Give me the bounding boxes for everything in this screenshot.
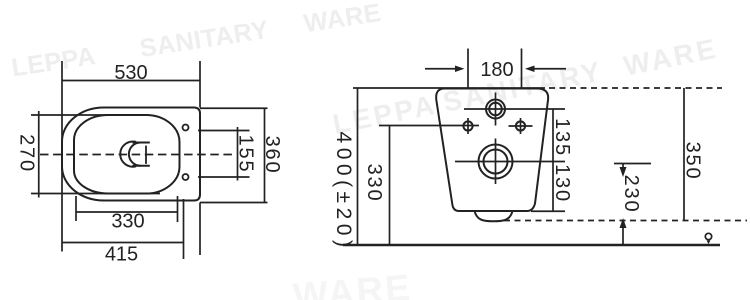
svg-text:415: 415: [105, 244, 138, 266]
water inlet circle: [486, 93, 505, 126]
svg-text:360: 360: [261, 136, 283, 175]
svg-text:400(±20): 400(±20): [332, 132, 355, 252]
drain outline inner arc: [129, 142, 141, 165]
svg-text:270: 270: [16, 134, 38, 173]
watermark row 2: [330, 33, 720, 140]
svg-text:350: 350: [682, 142, 704, 181]
wall top line dashed part: [549, 87, 722, 89]
svg-text:LEPPASANITARYWARE: LEPPASANITARYWARE: [10, 0, 383, 82]
drain center tick: [145, 146, 147, 164]
svg-text:135: 135: [551, 118, 573, 157]
drain top edge: [132, 142, 149, 144]
toilet rear body outline: [436, 89, 548, 212]
floor level symbol: [705, 233, 711, 239]
toilet right edge extension down: [199, 203, 201, 256]
drain bottom edge: [132, 165, 149, 167]
dimension 400(±20): [357, 88, 359, 245]
svg-text:230: 230: [620, 175, 642, 214]
dimension 360 extension lines / wall box: [200, 108, 268, 202]
toilet outer outline: [62, 107, 200, 200]
dimension 270: [31, 111, 160, 198]
svg-text:330: 330: [363, 164, 385, 203]
right fixing hole: [509, 118, 533, 134]
drain outline outer arc: [120, 142, 150, 167]
svg-text:330: 330: [111, 211, 144, 233]
bottom dashed line: [504, 220, 747, 222]
bowl inner outline: [74, 115, 180, 194]
dimension 330 (rear view): [379, 126, 479, 246]
dimension 180: [425, 49, 566, 89]
centerline (dashed): [40, 154, 235, 156]
dimension 350: [683, 88, 685, 221]
watermark row 1: [10, 0, 383, 82]
svg-text:155: 155: [235, 135, 257, 174]
svg-text:180: 180: [480, 59, 513, 81]
wall top line: [353, 87, 722, 89]
bottom outlet bump: [475, 211, 513, 221]
seat mounting hole bottom: [183, 174, 189, 180]
svg-text:WARE: WARE: [291, 267, 413, 300]
dimension 135 / 130 extension lines: [455, 109, 565, 211]
seat mounting hole top: [183, 125, 189, 131]
dimension 530: [62, 61, 200, 108]
left fixing hole: [463, 118, 472, 134]
dimension 415: [62, 96, 184, 259]
watermark row 3: [291, 267, 413, 300]
svg-text:130: 130: [551, 164, 573, 203]
dimension 230: [614, 164, 651, 246]
drain outlet circle: [479, 139, 513, 185]
dimension 330 (top view): [76, 196, 178, 222]
dimension 155: [198, 127, 250, 181]
svg-text:530: 530: [114, 62, 147, 84]
floor line: [343, 244, 720, 246]
